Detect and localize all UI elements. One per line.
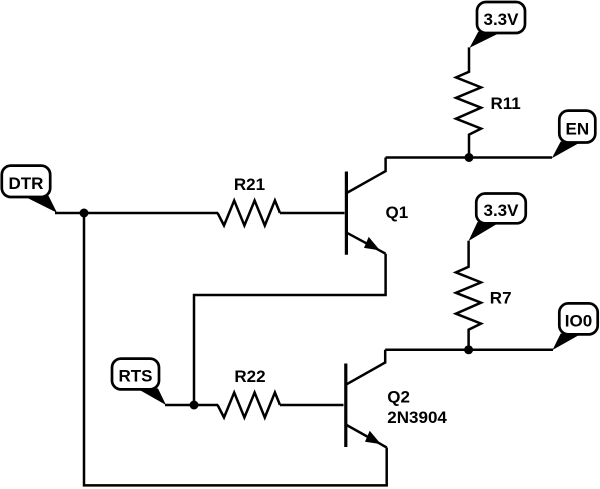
transistor Q2 collector lead bbox=[345, 350, 385, 385]
wire DTR vertical + bottom + Q2 emitter lead bbox=[84, 213, 387, 485]
transistor Q1 emitter arrow bbox=[364, 237, 380, 251]
junction DTR node bbox=[80, 209, 89, 218]
resistor R11 bbox=[456, 47, 521, 157]
svg-text:3.3V: 3.3V bbox=[484, 10, 520, 29]
net label RTS bbox=[112, 359, 166, 405]
svg-text:R7: R7 bbox=[490, 289, 512, 308]
svg-text:3.3V: 3.3V bbox=[484, 201, 520, 220]
svg-text:RTS: RTS bbox=[119, 367, 153, 386]
net label EN bbox=[552, 111, 596, 159]
wire DTR node to R21 bbox=[55, 212, 218, 215]
wire Q2 collector to IO0 node bbox=[385, 349, 553, 352]
resistor R7 bbox=[456, 241, 512, 350]
junction EN node bbox=[465, 153, 474, 162]
transistor Q1 base bar bbox=[345, 172, 348, 255]
svg-text:EN: EN bbox=[565, 120, 589, 139]
wire RTS node to R22 bbox=[165, 404, 218, 407]
net label 3.3V top bbox=[470, 2, 525, 48]
svg-text:IO0: IO0 bbox=[565, 312, 592, 331]
svg-text:R22: R22 bbox=[234, 367, 265, 386]
transistor Q1 emitter lead bbox=[346, 232, 386, 253]
wire R22 to Q2 base bbox=[280, 404, 344, 407]
svg-text:R21: R21 bbox=[234, 175, 265, 194]
junction RTS node bbox=[190, 401, 199, 410]
svg-text:Q1: Q1 bbox=[386, 203, 409, 222]
net label DTR bbox=[2, 166, 57, 213]
transistor Q2 emitter lead bbox=[345, 424, 387, 447]
transistor Q1 collector lead bbox=[346, 158, 386, 194]
svg-text:DTR: DTR bbox=[9, 174, 44, 193]
net label 3.3V mid bbox=[469, 194, 526, 242]
svg-text:2N3904: 2N3904 bbox=[387, 408, 447, 427]
svg-text:Q2: Q2 bbox=[387, 387, 410, 406]
resistor R21 bbox=[218, 175, 280, 226]
wire Q1 emitter to RTS node bbox=[194, 254, 386, 405]
wire R21 to Q1 base bbox=[280, 212, 345, 215]
wire Q1 collector to EN node bbox=[386, 156, 552, 159]
svg-text:R11: R11 bbox=[491, 94, 521, 113]
junction IO0 node bbox=[464, 345, 473, 354]
resistor R22 bbox=[218, 367, 280, 418]
net label IO0 bbox=[553, 303, 598, 350]
transistor Q2 base bar bbox=[344, 364, 347, 448]
transistor Q2 emitter arrow bbox=[365, 431, 381, 444]
